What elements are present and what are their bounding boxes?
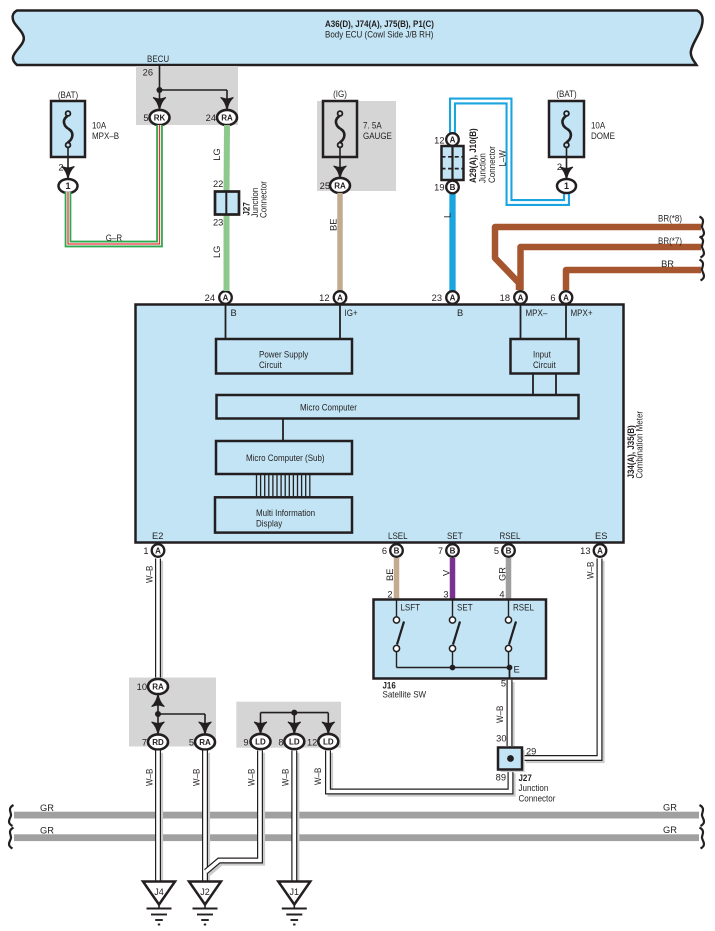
arrow into RA <box>221 98 234 111</box>
wire W-B from J16 E pin 5 <box>509 668 511 678</box>
svg-text:W–B: W–B <box>495 706 505 723</box>
power supply circuit box <box>216 339 352 374</box>
svg-text:BE: BE <box>329 219 339 231</box>
svg-text:IG+: IG+ <box>345 308 358 318</box>
svg-text:B: B <box>450 546 456 555</box>
svg-text:8: 8 <box>278 738 283 748</box>
svg-text:23: 23 <box>213 218 223 228</box>
svg-text:E: E <box>514 665 520 675</box>
svg-text:GR: GR <box>663 825 677 835</box>
junction <box>157 87 163 93</box>
svg-text:19: 19 <box>434 183 444 193</box>
connector circle 1 (MPX-B) <box>59 179 78 193</box>
svg-text:1: 1 <box>143 546 148 556</box>
wire W-B to J1 <box>294 751 296 884</box>
svg-text:MPX–: MPX– <box>526 308 549 318</box>
svg-text:W–B: W–B <box>586 562 596 579</box>
junction connector A29(A), J10(B) <box>442 146 464 180</box>
svg-text:ES: ES <box>595 531 607 541</box>
wire to 25 RA <box>339 148 341 172</box>
svg-text:A: A <box>518 293 524 302</box>
bus bar GR (lower) <box>14 834 699 841</box>
svg-text:A: A <box>155 546 161 555</box>
svg-text:SET: SET <box>457 603 473 613</box>
svg-text:B: B <box>231 308 237 318</box>
svg-text:26: 26 <box>143 68 153 78</box>
svg-text:G–R: G–R <box>106 233 123 243</box>
arrow up into 10 RA <box>157 700 159 714</box>
svg-text:LD: LD <box>289 737 300 746</box>
svg-text:W–B: W–B <box>192 769 202 786</box>
svg-text:4: 4 <box>499 590 504 600</box>
wire W-B to J4 <box>158 751 160 884</box>
ground J1 <box>278 882 310 905</box>
svg-text:Micro Computer (Sub): Micro Computer (Sub) <box>246 453 325 463</box>
svg-text:25: 25 <box>320 181 330 191</box>
svg-text:24: 24 <box>206 113 216 123</box>
shield box LD group <box>236 702 341 748</box>
svg-text:13: 13 <box>580 546 590 556</box>
svg-text:RA: RA <box>221 113 233 122</box>
svg-text:B: B <box>394 546 400 555</box>
svg-text:LG: LG <box>212 246 222 258</box>
svg-text:RSEL: RSEL <box>513 603 534 613</box>
svg-text:3: 3 <box>443 590 448 600</box>
micro computer box <box>217 395 579 419</box>
input circuit box <box>511 339 579 374</box>
svg-text:24: 24 <box>205 293 215 303</box>
svg-text:GR: GR <box>40 826 54 836</box>
wire from BECU pin 26 <box>159 66 161 104</box>
BECU branch shield box <box>136 66 238 125</box>
wire V to SET <box>450 558 456 599</box>
svg-text:6: 6 <box>550 293 555 303</box>
svg-text:BR(*7): BR(*7) <box>658 236 682 246</box>
svg-text:Power Supply: Power Supply <box>259 350 309 360</box>
bus A36/J74/J75/P1 Body ECU <box>13 11 703 66</box>
svg-text:BE: BE <box>385 569 395 581</box>
svg-text:Circuit: Circuit <box>533 360 556 370</box>
svg-text:1: 1 <box>65 181 70 191</box>
svg-text:6: 6 <box>382 546 387 556</box>
svg-text:29: 29 <box>526 747 536 757</box>
wire G-R <box>68 125 160 244</box>
wire branch to pin 24 <box>160 89 228 91</box>
svg-text:A: A <box>223 293 229 302</box>
svg-text:L–W: L–W <box>498 150 508 167</box>
svg-text:RD: RD <box>152 738 164 747</box>
multi information display box <box>215 497 352 532</box>
svg-text:5: 5 <box>501 679 506 689</box>
svg-text:5: 5 <box>189 738 194 748</box>
svg-text:Connector: Connector <box>519 794 556 804</box>
wire W-B from ES to J27 pin 29 <box>524 559 602 761</box>
svg-text:9: 9 <box>243 738 248 748</box>
wire LG <box>224 125 231 291</box>
svg-text:BECU: BECU <box>147 54 169 64</box>
svg-text:1: 1 <box>564 181 569 191</box>
branch bus <box>261 712 329 714</box>
svg-text:A: A <box>597 546 603 555</box>
svg-text:Junction: Junction <box>519 783 549 793</box>
svg-text:18: 18 <box>500 293 510 303</box>
shield box RA/RD/RA <box>129 678 216 747</box>
svg-text:GR: GR <box>663 803 677 813</box>
svg-text:23: 23 <box>432 293 442 303</box>
wire BE to LSFT <box>394 558 400 599</box>
svg-text:RA: RA <box>199 738 211 747</box>
svg-text:Connector: Connector <box>259 181 269 218</box>
svg-text:10A: 10A <box>92 121 107 131</box>
svg-text:BR(*8): BR(*8) <box>658 214 682 224</box>
svg-text:22: 22 <box>213 179 223 189</box>
svg-text:Satellite SW: Satellite SW <box>383 690 427 700</box>
svg-text:RSEL: RSEL <box>500 531 521 541</box>
wire W-B from 9 LD joining J2 <box>206 751 262 874</box>
svg-text:Junction: Junction <box>478 153 488 183</box>
wire BE (IG to meter IG+) <box>337 193 343 291</box>
svg-text:Multi Information: Multi Information <box>256 508 315 518</box>
wire BR(*7) <box>521 247 702 290</box>
svg-text:W–B: W–B <box>281 769 291 786</box>
svg-text:LD: LD <box>255 737 266 746</box>
svg-text:A: A <box>450 293 456 302</box>
svg-text:30: 30 <box>496 734 506 744</box>
svg-text:W–B: W–B <box>145 769 155 786</box>
connector circle 1 (DOME) <box>557 179 576 193</box>
svg-text:12: 12 <box>434 136 444 146</box>
svg-text:GR: GR <box>498 567 508 581</box>
svg-text:12: 12 <box>319 293 329 303</box>
svg-text:J4: J4 <box>154 887 164 897</box>
svg-text:89: 89 <box>496 773 506 783</box>
svg-text:(BAT): (BAT) <box>556 89 576 99</box>
svg-text:2: 2 <box>387 590 392 600</box>
svg-text:7. 5A: 7. 5A <box>363 121 382 131</box>
svg-text:12: 12 <box>307 738 317 748</box>
svg-text:E2: E2 <box>152 531 163 541</box>
svg-text:RK: RK <box>154 113 166 122</box>
wire L-W <box>453 101 567 203</box>
svg-text:W–B: W–B <box>247 769 257 786</box>
svg-text:LSEL: LSEL <box>388 531 408 541</box>
wire BR(*8) <box>495 227 701 290</box>
svg-text:5: 5 <box>143 113 148 123</box>
svg-text:(BAT): (BAT) <box>58 90 78 100</box>
svg-text:J2: J2 <box>200 887 210 897</box>
svg-text:L: L <box>443 213 453 218</box>
node E <box>507 665 513 671</box>
svg-text:10: 10 <box>137 682 147 692</box>
svg-text:GAUGE: GAUGE <box>363 131 392 141</box>
combination meter J34(A), J35(B) <box>136 305 624 543</box>
svg-text:J1: J1 <box>290 887 300 897</box>
svg-text:B: B <box>506 546 512 555</box>
svg-text:5: 5 <box>494 546 499 556</box>
svg-text:W–B: W–B <box>313 768 323 785</box>
svg-text:7: 7 <box>142 738 147 748</box>
branch wires <box>157 714 159 723</box>
svg-text:W–B: W–B <box>145 566 155 583</box>
stub micro computer to sub <box>282 419 284 442</box>
wire W-B from E2 <box>158 559 160 681</box>
micro computer (sub) box <box>216 441 352 474</box>
wire GR to RSEL <box>506 558 512 599</box>
svg-text:DOME: DOME <box>591 131 615 141</box>
svg-text:LD: LD <box>323 737 334 746</box>
bus bar GR (upper) <box>14 812 699 819</box>
svg-text:A: A <box>563 293 569 302</box>
svg-text:Circuit: Circuit <box>259 360 282 370</box>
svg-text:7: 7 <box>438 546 443 556</box>
svg-text:Body ECU (Cowl Side J/B RH): Body ECU (Cowl Side J/B RH) <box>325 30 433 40</box>
wire W-B from 12 LD to J27 pin 89 <box>328 751 513 794</box>
svg-text:Micro Computer: Micro Computer <box>300 403 357 413</box>
ribbon between sub and display <box>256 474 258 497</box>
svg-text:MPX+: MPX+ <box>571 308 593 318</box>
svg-text:MPX–B: MPX–B <box>92 131 119 141</box>
wire BR <box>566 270 701 290</box>
svg-text:B: B <box>457 308 463 318</box>
svg-text:RA: RA <box>152 682 164 691</box>
svg-text:A: A <box>337 293 343 302</box>
svg-text:Input: Input <box>533 350 551 360</box>
svg-text:A29(A), J10(B): A29(A), J10(B) <box>468 128 478 183</box>
stubs input circuit to micro computer <box>532 374 534 397</box>
svg-text:10A: 10A <box>591 121 606 131</box>
svg-text:Display: Display <box>256 519 283 529</box>
wire fuse pin 2 <box>67 148 69 172</box>
stub wires into power supply circuit <box>225 305 227 340</box>
ground J2 <box>189 882 221 905</box>
stub wires into input circuit <box>520 305 522 340</box>
svg-text:SET: SET <box>447 531 463 541</box>
svg-text:J27: J27 <box>519 773 532 783</box>
wire W-B to J2 <box>205 751 207 884</box>
svg-text:GR: GR <box>40 803 54 813</box>
svg-text:RA: RA <box>334 181 346 190</box>
arrow into RK <box>153 98 166 111</box>
svg-text:(IG): (IG) <box>333 89 347 99</box>
svg-text:A36(D), J74(A), J75(B), P1(C): A36(D), J74(A), J75(B), P1(C) <box>325 19 434 29</box>
switch common bus to node E <box>397 667 510 669</box>
svg-text:BR: BR <box>661 259 674 269</box>
svg-text:B: B <box>450 183 456 192</box>
wire fuse pin 2 <box>566 148 568 172</box>
wire L <box>449 193 455 291</box>
junction connector J27 (bottom) <box>501 750 525 772</box>
svg-text:Combination Meter: Combination Meter <box>635 411 645 479</box>
svg-text:A: A <box>450 135 456 144</box>
svg-text:LG: LG <box>212 148 222 160</box>
svg-text:V: V <box>442 569 452 576</box>
svg-text:Connector: Connector <box>487 146 497 183</box>
ground J4 <box>143 882 175 905</box>
svg-text:LSFT: LSFT <box>401 603 421 613</box>
